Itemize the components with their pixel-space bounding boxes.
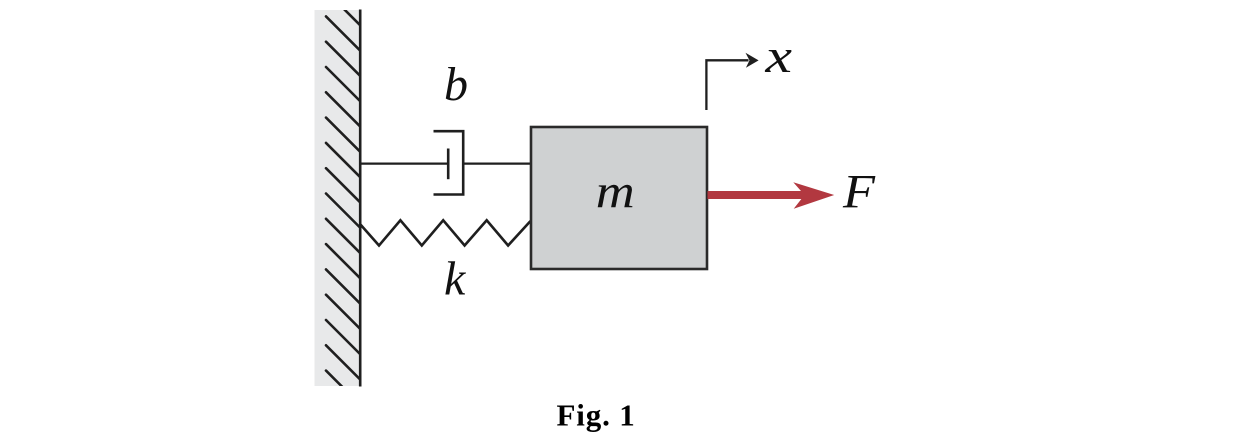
svg-text:x: x (764, 30, 792, 83)
damper rod right (463, 162, 532, 164)
spring k (360, 220, 531, 245)
wall face line (359, 10, 362, 387)
wall hatching (326, 0, 360, 405)
x axis reference line (706, 60, 748, 110)
force arrow F head (793, 182, 834, 208)
damper piston plate (447, 149, 450, 180)
damper cylinder b (434, 131, 464, 194)
mass m block (531, 127, 707, 269)
svg-text:k: k (444, 253, 467, 306)
svg-text:Fig. 1: Fig. 1 (557, 398, 636, 433)
wall (315, 10, 362, 386)
x axis arrowhead (746, 53, 759, 68)
svg-text:b: b (444, 58, 468, 111)
svg-text:m: m (596, 166, 635, 219)
svg-text:F: F (842, 165, 876, 218)
damper rod left (360, 162, 449, 164)
force arrow F shaft (708, 191, 809, 199)
